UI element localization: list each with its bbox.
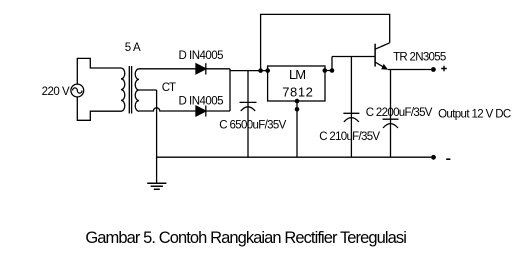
wire secondary bottom with hop over CT [139, 108, 196, 111]
AC source sine symbol [73, 88, 82, 93]
node ground pin junction [295, 107, 300, 112]
terminal - dot [431, 155, 436, 160]
regulator U1 LM7812 box [268, 66, 325, 101]
svg-text:TR 2N3055: TR 2N3055 [393, 51, 446, 63]
svg-text:Gambar 5. Contoh Rangkaian Rec: Gambar 5. Contoh Rangkaian Rectifier Ter… [85, 229, 406, 247]
LM ground pin dot [295, 99, 300, 104]
terminal + dot [431, 67, 436, 72]
minus sign [446, 158, 450, 160]
wire primary top loop [77, 58, 121, 84]
svg-text:7812: 7812 [282, 84, 313, 99]
plus sign [441, 66, 447, 72]
node LM output junction [330, 68, 335, 73]
svg-text:LM: LM [289, 67, 305, 82]
ground symbol [147, 183, 166, 189]
capacitor C2 plates [343, 113, 359, 122]
junction dots [258, 67, 436, 160]
wire D2 cathode to link [206, 110, 230, 112]
wire LM ground pin [296, 101, 298, 157]
svg-text:220 V: 220 V [42, 86, 70, 98]
LM output pin dot [323, 68, 328, 73]
wire link to LM input [230, 70, 268, 72]
AC source V1 circle [71, 84, 84, 97]
ground rail wire [157, 156, 432, 158]
wire Q1 base [332, 56, 375, 58]
capacitor C3 plates [383, 119, 399, 128]
svg-text:C 210uF/35V: C 210uF/35V [319, 131, 380, 143]
wire primary bottom loop [77, 97, 121, 120]
wire emitter to + terminal [388, 69, 431, 71]
transistor Q1 base bar [374, 44, 376, 67]
wire LM output stub [325, 57, 332, 71]
capacitor C1 plates [240, 102, 257, 111]
svg-text:5 A: 5 A [125, 42, 141, 54]
diode D1 IN4005 [196, 64, 206, 74]
node rectifier out junction [258, 68, 263, 73]
capacitor C3 2200uF vertical wire [390, 70, 392, 158]
capacitor C2 210uF vertical wire [350, 57, 352, 158]
transistor Q1 collector [375, 43, 390, 49]
transformer T1 primary winding [121, 68, 125, 111]
svg-text:D IN4005: D IN4005 [179, 95, 224, 107]
transformer core [129, 66, 131, 114]
diode D2 IN4005 [196, 106, 206, 116]
svg-text:Output 12 V DC: Output 12 V DC [438, 109, 511, 121]
svg-text:C 2200uF/35V: C 2200uF/35V [366, 107, 433, 119]
svg-text:CT: CT [162, 82, 176, 94]
wire bypass top rail [261, 14, 390, 70]
capacitor C1 6500uF vertical wire [247, 71, 249, 158]
transistor Q1 emitter with arrow [375, 62, 385, 68]
wire secondary top to diode D1 [139, 68, 196, 70]
transformer T1 secondary winding [135, 69, 139, 111]
wire link vertical rectifier output [229, 69, 231, 111]
LM input pin dot [265, 68, 270, 73]
svg-text:D IN4005: D IN4005 [179, 50, 224, 62]
svg-text:C 6500uF/35V: C 6500uF/35V [219, 120, 286, 132]
wire D1 cathode to link [206, 68, 230, 70]
wire CT vertical to ground [156, 90, 158, 183]
wire CT tap [139, 89, 157, 91]
